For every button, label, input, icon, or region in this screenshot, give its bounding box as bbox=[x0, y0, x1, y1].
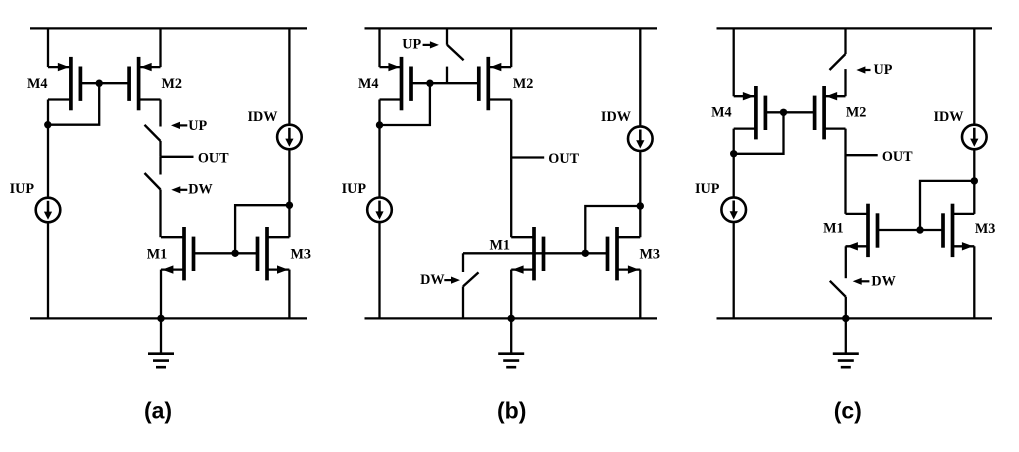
wire M3 drain riser (a) bbox=[288, 205, 290, 237]
node ground junction (b) bbox=[508, 315, 515, 322]
wire VSS bottom rail (a) bbox=[30, 317, 307, 319]
wire IDW to M3 drain (c) bbox=[973, 149, 975, 181]
wire NMOS gate feedback (c) bbox=[920, 181, 974, 230]
switch UP blade (b) bbox=[447, 45, 464, 61]
transistor M1 (c) bbox=[846, 204, 878, 257]
wire DW switch to M1 drain (a) bbox=[159, 190, 161, 238]
wire switch UP to gate bus (b) bbox=[446, 67, 448, 84]
wire IUP to rail (c) bbox=[733, 222, 735, 319]
wire VDD to IDW (b) bbox=[639, 28, 641, 126]
node ground junction (a) bbox=[157, 315, 164, 322]
current source IDW (c) bbox=[962, 125, 987, 150]
ground (a) bbox=[148, 318, 174, 367]
wire M2 drain to switch (a) bbox=[159, 100, 161, 127]
wire M2 source riser (b) bbox=[510, 28, 512, 67]
node PMOS gate (a) bbox=[96, 80, 103, 87]
transistor M2 (c) bbox=[815, 86, 846, 139]
svg-text:UP: UP bbox=[188, 118, 207, 134]
svg-text:DW: DW bbox=[420, 272, 444, 288]
wire M2 drain to M1 drain OUT net (b) bbox=[510, 100, 512, 238]
node NMOS gate (a) bbox=[231, 250, 238, 257]
transistor M3 (c) bbox=[943, 204, 974, 257]
node M3 drain junction (b) bbox=[637, 202, 644, 209]
wire M3 source to rail (a) bbox=[288, 270, 290, 319]
transistor M4 (c) bbox=[734, 86, 766, 139]
node PMOS gate (b) bbox=[426, 80, 433, 87]
svg-text:(c): (c) bbox=[834, 398, 862, 424]
wire M4 source riser (b) bbox=[378, 28, 380, 67]
wire M1 gate lead (a) bbox=[194, 252, 236, 254]
wire OUT to DW switch (a) bbox=[159, 157, 161, 175]
wire VDD top rail (b) bbox=[365, 27, 658, 29]
wire M3 drain riser (c) bbox=[973, 181, 975, 214]
switch UP (a) bbox=[145, 125, 161, 141]
wire M2 drain to M1 drain OUT net (c) bbox=[844, 129, 846, 214]
transistor M2 (b) bbox=[479, 57, 511, 110]
svg-text:M3: M3 bbox=[291, 246, 312, 262]
svg-text:DW: DW bbox=[871, 273, 895, 289]
wire VSS bottom rail (c) bbox=[717, 317, 993, 319]
wire M1 source to rail (a) bbox=[160, 270, 162, 319]
wire VDD to IDW (c) bbox=[973, 28, 975, 125]
node PMOS gate (c) bbox=[780, 109, 787, 116]
wire M2 source riser (a) bbox=[159, 28, 161, 67]
wire M4 drain to IUP (a) bbox=[47, 100, 49, 199]
transistor M3 (a) bbox=[258, 227, 290, 280]
svg-text:IUP: IUP bbox=[695, 181, 720, 197]
svg-text:OUT: OUT bbox=[882, 149, 913, 165]
arrow UP (a) bbox=[171, 122, 187, 129]
wire M3 gate lead (a) bbox=[235, 252, 257, 254]
wire VSS bottom rail (b) bbox=[365, 317, 658, 319]
wire PMOS gate bus (a) bbox=[80, 82, 129, 84]
switch DW blade (b) bbox=[463, 272, 479, 286]
wire M1 source to rail (b) bbox=[510, 270, 512, 319]
svg-text:M2: M2 bbox=[162, 76, 183, 92]
current source IDW (a) bbox=[277, 125, 302, 150]
node M4 drain-gate junction (c) bbox=[730, 150, 737, 157]
wire M3 gate lead (c) bbox=[920, 229, 943, 231]
wire VDD to IDW (a) bbox=[288, 28, 290, 125]
wire M4 source riser (a) bbox=[47, 28, 49, 67]
wire IUP to rail (b) bbox=[378, 222, 380, 318]
wire IUP to rail (a) bbox=[47, 222, 49, 318]
svg-text:IUP: IUP bbox=[10, 181, 35, 197]
transistor M2 (a) bbox=[129, 57, 160, 110]
switch UP upper stub (c) bbox=[844, 28, 846, 54]
wire PMOS gate bus (b) bbox=[411, 82, 479, 84]
arrow DW (a) bbox=[171, 186, 187, 193]
node M4 drain-gate junction (b) bbox=[376, 121, 383, 128]
arrow DW (b) bbox=[444, 277, 460, 284]
arrow DW (c) bbox=[853, 278, 870, 285]
wire PMOS gate bus (c) bbox=[765, 111, 814, 113]
svg-text:M3: M3 bbox=[975, 221, 996, 237]
node NMOS gate (c) bbox=[916, 226, 923, 233]
wire M4 drain to IUP (b) bbox=[378, 100, 380, 199]
svg-text:M1: M1 bbox=[490, 237, 511, 253]
svg-text:M4: M4 bbox=[27, 76, 48, 92]
transistor M4 (b) bbox=[380, 57, 412, 110]
svg-text:M3: M3 bbox=[640, 246, 661, 262]
current source IDW (b) bbox=[628, 126, 653, 151]
svg-text:DW: DW bbox=[188, 182, 212, 198]
wire IDW to M3 drain (b) bbox=[639, 151, 641, 206]
svg-text:IUP: IUP bbox=[342, 181, 367, 197]
wire switch DW to rail (b) bbox=[462, 286, 464, 318]
wire NMOS gate bus (b) bbox=[463, 252, 607, 254]
svg-text:(b): (b) bbox=[497, 398, 526, 424]
svg-text:M2: M2 bbox=[846, 104, 867, 120]
node OUT stub (a) bbox=[161, 156, 194, 158]
transistor M3 (b) bbox=[608, 227, 641, 280]
arrow UP (b) bbox=[423, 41, 439, 48]
node ground junction (c) bbox=[842, 315, 849, 322]
node NMOS gate (b) bbox=[582, 250, 589, 257]
wire NMOS gate feedback (a) bbox=[235, 205, 289, 253]
svg-text:M4: M4 bbox=[711, 104, 732, 120]
svg-text:UP: UP bbox=[402, 36, 421, 52]
transistor M4 (a) bbox=[48, 57, 80, 110]
wire switch DW to rail (c) bbox=[845, 297, 847, 319]
wire M4 drain to IUP (c) bbox=[733, 129, 735, 198]
svg-text:OUT: OUT bbox=[548, 151, 579, 167]
switch DW (a) bbox=[145, 173, 161, 190]
svg-text:IDW: IDW bbox=[601, 109, 631, 125]
wire M4 diode connection (a) bbox=[48, 83, 99, 125]
svg-text:(a): (a) bbox=[144, 398, 172, 424]
node M3 drain junction (c) bbox=[971, 177, 978, 184]
wire VDD top rail (a) bbox=[30, 27, 307, 29]
wire M4 diode connection (b) bbox=[380, 83, 430, 125]
switch DW upper stub (b) bbox=[462, 253, 464, 272]
svg-text:M1: M1 bbox=[147, 246, 168, 262]
switch DW blade (c) bbox=[830, 281, 846, 297]
node M3 drain junction (a) bbox=[286, 202, 293, 209]
node OUT stub (b) bbox=[511, 156, 544, 158]
wire M4 source riser (c) bbox=[733, 28, 735, 96]
wire M2 source to switch (c) bbox=[844, 69, 846, 96]
wire M3 drain riser (b) bbox=[639, 206, 641, 237]
wire M1 source to switch (c) bbox=[845, 246, 847, 278]
wire M4 diode connection (c) bbox=[734, 112, 784, 154]
wire M3 source to rail (b) bbox=[639, 270, 641, 319]
wire M3 source to rail (c) bbox=[973, 246, 975, 318]
wire VDD top rail (c) bbox=[717, 27, 993, 29]
wire IDW to M3 drain (a) bbox=[288, 149, 290, 205]
svg-text:M4: M4 bbox=[358, 76, 379, 92]
wire switch to OUT (a) bbox=[159, 141, 161, 157]
current source IUP (c) bbox=[721, 197, 746, 222]
wire NMOS gate feedback (b) bbox=[585, 206, 640, 253]
svg-text:IDW: IDW bbox=[248, 109, 278, 125]
transistor M1 (a) bbox=[161, 227, 194, 280]
node M4 drain-gate junction (a) bbox=[44, 121, 51, 128]
ground (b) bbox=[498, 318, 524, 367]
ground (c) bbox=[833, 318, 859, 367]
transistor M1 (b) bbox=[511, 227, 543, 280]
svg-text:IDW: IDW bbox=[934, 109, 964, 125]
svg-text:UP: UP bbox=[874, 62, 893, 78]
arrow UP (c) bbox=[856, 66, 870, 73]
wire M1 gate lead (c) bbox=[878, 229, 921, 231]
node OUT stub (c) bbox=[846, 154, 878, 156]
switch UP blade (c) bbox=[830, 54, 846, 70]
current source IUP (a) bbox=[36, 198, 61, 223]
svg-text:M2: M2 bbox=[513, 76, 534, 92]
switch UP upper stub (b) bbox=[446, 28, 448, 44]
svg-text:M1: M1 bbox=[823, 220, 844, 236]
svg-text:OUT: OUT bbox=[198, 150, 229, 166]
current source IUP (b) bbox=[367, 198, 392, 223]
